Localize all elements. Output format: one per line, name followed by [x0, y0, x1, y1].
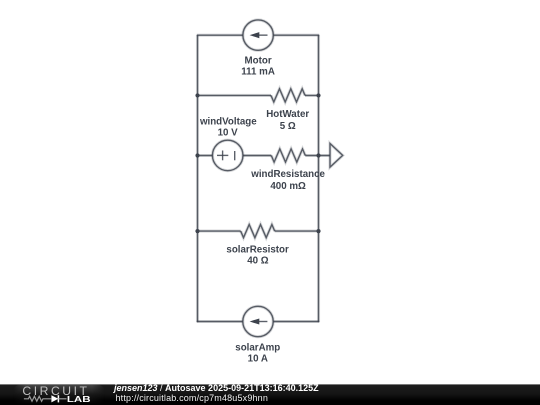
wire row4 left segment [198, 230, 241, 233]
svg-text:http://circuitlab.com/cp7m48u5: http://circuitlab.com/cp7m48u5x9hnn [116, 393, 269, 403]
wire left vertical net [196, 35, 199, 322]
junction node left row4 [195, 229, 199, 233]
value 400 mohm [270, 181, 306, 192]
svg-text:windResistance: windResistance [250, 169, 325, 180]
label solarResistor [226, 245, 289, 256]
value 5 ohm [280, 121, 296, 132]
label Motor [245, 56, 272, 67]
output flag node [330, 144, 343, 168]
wire row2 right segment [305, 94, 319, 97]
value 10 V [218, 127, 239, 138]
label windVoltage [199, 116, 257, 127]
footer line2 url [116, 393, 269, 403]
junction node left row2 [195, 93, 199, 97]
svg-text:windVoltage: windVoltage [199, 116, 257, 127]
current source I2 solarAmp [243, 306, 273, 336]
junction node right row4 [316, 229, 320, 233]
voltage source V1 windVoltage [212, 140, 243, 171]
resistor windResistance [271, 149, 305, 162]
svg-text:solarResistor: solarResistor [226, 245, 289, 256]
wire right vertical net [317, 35, 320, 322]
footer logo CIRCUIT text [22, 384, 89, 398]
value 40 ohm [247, 256, 269, 267]
wire row2 left segment [198, 94, 272, 97]
svg-text:jensen123 / Autosave 2025-09-2: jensen123 / Autosave 2025-09-21T13:16:40… [113, 383, 319, 393]
svg-text:40 Ω: 40 Ω [247, 256, 269, 267]
wire row3 left segment [198, 154, 272, 157]
svg-text:10 V: 10 V [218, 127, 239, 138]
footer logo highlight panel [13, 385, 105, 405]
svg-text:solarAmp: solarAmp [235, 343, 280, 354]
wire row4 right segment [275, 230, 319, 233]
footer logo diode symbol [51, 395, 66, 402]
junction node left row3 [195, 153, 199, 157]
resistor solarResistor [241, 225, 275, 238]
footer bar background [0, 384, 540, 405]
footer logo LAB text [67, 394, 91, 404]
current source I1 Motor [243, 20, 273, 50]
resistor HotWater [271, 89, 305, 102]
junction node right row3 [316, 153, 320, 157]
svg-text:111 mA: 111 mA [241, 67, 275, 78]
label windResistance [250, 169, 325, 180]
svg-text:10 A: 10 A [248, 354, 268, 365]
svg-text:5 Ω: 5 Ω [280, 121, 296, 132]
junction node right row2 [316, 93, 320, 97]
value 10 A [248, 354, 268, 365]
label HotWater [266, 109, 309, 120]
svg-text:HotWater: HotWater [266, 109, 309, 120]
wire top horizontal net [197, 34, 319, 37]
svg-text:Motor: Motor [245, 56, 272, 67]
wire row3 right segment to flag [305, 154, 330, 157]
svg-text:400 mΩ: 400 mΩ [270, 181, 306, 192]
footer line1 author and autosave [113, 383, 319, 393]
wire bottom horizontal net [197, 320, 319, 323]
footer logo resistor zigzag [24, 396, 51, 401]
svg-text:LAB: LAB [67, 394, 91, 404]
label solarAmp [235, 343, 280, 354]
value 111 mA [241, 67, 275, 78]
